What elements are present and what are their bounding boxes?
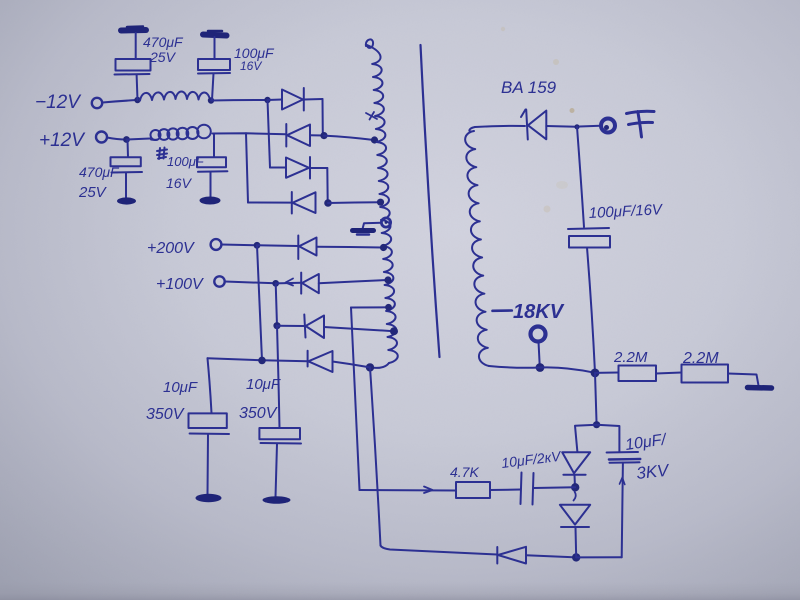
node multiplier top — [593, 421, 600, 428]
node +100V branch — [272, 280, 279, 287]
wire +100V bus down to D8 node — [276, 283, 277, 325]
wire bottom node to C9 corner — [576, 556, 622, 558]
label C1 25V — [149, 49, 177, 65]
label -12V — [35, 92, 82, 113]
svg-text:470μF: 470μF — [143, 34, 184, 50]
label C7 10uF — [246, 376, 281, 393]
wire D7 to transformer tap 4 — [319, 280, 388, 283]
node primary bottom — [366, 363, 374, 371]
node -18KV on bus — [536, 363, 545, 372]
capacitor C8 plates — [521, 473, 534, 505]
wire L2 to D2 cathode — [213, 133, 287, 134]
wire D12 to bottom node — [526, 555, 576, 557]
inductor L1 on -12V rail — [140, 92, 210, 101]
wire to D3 anode — [270, 167, 286, 169]
arrow tick on C9 stem — [620, 478, 625, 485]
wire D11 to bottom node — [575, 528, 578, 558]
capacitor C9 plates — [607, 452, 641, 463]
terminal circled dot on winding — [381, 218, 390, 227]
capacitor C7 plates — [259, 428, 301, 444]
svg-text:3KV: 3KV — [635, 461, 671, 483]
label C5 100uF/16V — [588, 201, 664, 222]
label C9 10uF/ — [624, 431, 668, 454]
label +12V — [39, 130, 86, 151]
capacitor C4 stem top — [213, 134, 215, 157]
capacitor C6 stem bottom — [207, 435, 210, 495]
capacitor C4 plates — [197, 157, 227, 172]
node on -12V rail at C1 — [134, 97, 140, 103]
wire +100V to node with arrow — [225, 279, 293, 286]
diode D8 — [304, 315, 324, 339]
wire tap 6 row to vertical A — [351, 306, 389, 308]
label R1 2.2M — [613, 349, 648, 366]
label C1 470uF — [143, 34, 184, 50]
svg-text:350V: 350V — [239, 405, 278, 422]
wire bottom bus left segment — [381, 546, 498, 555]
label +100V — [156, 276, 204, 293]
label C8 10uF/2KV — [500, 448, 563, 471]
wire D8 to transformer tap 5 — [324, 327, 394, 331]
node at F branch — [574, 124, 579, 129]
wire node to D8 — [277, 325, 304, 327]
wire +12V branch down to D4 row — [246, 133, 248, 202]
svg-text:+100V: +100V — [156, 276, 204, 293]
node D1-D2 junction — [320, 132, 327, 139]
label -18KV — [493, 301, 565, 323]
diode D1 — [282, 88, 304, 111]
inductor L2 coil on +12V rail — [151, 125, 211, 140]
node transformer tap 6 — [385, 304, 392, 311]
capacitor C2 stem bottom — [212, 74, 214, 101]
wire R3 left with arrow — [360, 487, 457, 494]
diode D7 +100V — [301, 273, 319, 294]
label C3 25V — [78, 184, 108, 201]
resistor R3 4.7K — [456, 482, 490, 498]
capacitor C2 stem top — [214, 37, 216, 59]
wire D6 to transformer tap 3 — [317, 246, 384, 249]
svg-text:16V: 16V — [166, 175, 193, 191]
node +200V branch — [254, 242, 261, 249]
capacitor C1 470uF 25V top bar — [121, 27, 146, 31]
wire bus node down to multiplier — [595, 373, 597, 425]
label C3 470uF — [79, 164, 120, 180]
svg-text:470μF: 470μF — [79, 164, 120, 180]
node transformer tap 3 — [380, 244, 387, 251]
terminal +100V — [214, 276, 224, 286]
ground blob C3 — [117, 197, 136, 204]
transformer primary winding T1 — [366, 39, 398, 363]
node +200V bus on D9 row — [258, 357, 266, 365]
svg-text:4.7K: 4.7K — [450, 464, 479, 480]
label C6 10uF — [163, 379, 198, 396]
wire node to D7 — [276, 282, 301, 285]
capacitor C7 stem bottom — [276, 444, 278, 497]
wire C9 bottom stem — [622, 463, 623, 558]
diode D10 — [562, 452, 590, 475]
svg-text:350V: 350V — [146, 406, 185, 423]
wire node to D1 anode — [268, 99, 283, 102]
svg-text:10μF: 10μF — [246, 376, 281, 393]
label C7 350V — [239, 405, 278, 422]
resistor R1 2.2M — [619, 366, 657, 382]
capacitor C6 stem top — [208, 358, 212, 413]
wire BA159 to F node — [546, 125, 576, 128]
svg-text:16V: 16V — [240, 59, 262, 73]
svg-text:18KV: 18KV — [513, 301, 565, 323]
capacitor C3 plates — [111, 157, 143, 172]
label C4 16V — [166, 175, 193, 191]
svg-text:25V: 25V — [149, 49, 177, 65]
node transformer tap 5 — [390, 327, 398, 335]
terminal +12V — [96, 132, 107, 143]
wire vertical B down to bottom bus — [370, 367, 381, 545]
capacitor C1 stem top — [135, 33, 137, 59]
wire D3 cathode to corner — [310, 167, 327, 169]
node transformer tap 4 — [384, 276, 391, 283]
wire node to D6 — [257, 244, 298, 247]
terminal +200V — [211, 239, 222, 250]
capacitor C1 stem bottom — [136, 75, 139, 101]
wire bottom bus secondary — [489, 366, 595, 373]
label C9 3KV — [635, 461, 671, 483]
squiggle below middle node — [574, 492, 576, 501]
wire node to transformer tap 2 — [328, 201, 381, 204]
wire primary bottom to node — [370, 363, 389, 368]
wire D2 anode to node — [310, 134, 324, 136]
capacitor C1 plates — [115, 59, 151, 75]
paper stains — [501, 27, 575, 213]
capacitor C4 stem bottom — [210, 172, 212, 197]
wire D10 top stem — [575, 425, 597, 452]
node bottom bus — [572, 553, 580, 561]
wire R2 to termination — [728, 374, 759, 386]
ground bar near winding — [353, 231, 374, 235]
capacitor C6 plates — [189, 413, 230, 434]
svg-text:+12V: +12V — [39, 130, 86, 151]
terminal -12V — [92, 98, 102, 108]
wire D3 corner down to D4 node — [326, 168, 328, 203]
svg-text:−12V: −12V — [35, 92, 82, 113]
wire node to coil L2 — [127, 139, 151, 140]
wire D4 row left segment — [248, 202, 292, 204]
wire +200V bus down — [257, 245, 262, 360]
diode D6 +200V — [298, 236, 316, 260]
svg-text:2.2M: 2.2M — [613, 349, 648, 366]
wire +12V terminal to node — [107, 138, 126, 140]
svg-text:25V: 25V — [78, 184, 108, 201]
node +12V at C3 — [123, 136, 130, 143]
svg-text:+200V: +200V — [147, 240, 195, 257]
wire bus node to R1 — [595, 372, 619, 374]
label C4 100uF — [167, 154, 205, 169]
diode D11 — [560, 505, 590, 527]
ground blob C7 — [263, 496, 291, 504]
wire middle node to C8 — [534, 486, 575, 489]
label C6 350V — [146, 406, 185, 423]
terminal -18KV — [531, 327, 546, 342]
scribble mark before C4 label — [157, 148, 167, 160]
wire -12V terminal to node — [103, 100, 138, 103]
wire D9 to primary bottom node — [333, 362, 371, 368]
wire D9 row left segment — [208, 358, 308, 361]
capacitor C2 100uF 16V top bar — [203, 31, 227, 36]
node D8 row — [273, 322, 280, 329]
wire D1 cathode to corner — [304, 98, 323, 101]
node transformer tap 2 — [377, 199, 384, 206]
node -12V rail at D1 branch — [264, 97, 270, 103]
wire -18KV terminal to bus — [539, 342, 540, 368]
label R3 4.7K — [450, 464, 479, 480]
wire +100V bus down to C7 — [277, 326, 280, 428]
node transformer tap 1 — [371, 136, 378, 143]
capacitor C3 stem bottom — [125, 173, 127, 199]
ground blob C4 — [200, 197, 221, 205]
wire D1 corner down to D2 node — [322, 99, 324, 135]
capacitor C3 470uF 25V stem top — [127, 140, 130, 158]
capacitor C5 stem bottom — [587, 248, 595, 373]
svg-text:10μF: 10μF — [163, 379, 198, 396]
termination bar right — [748, 385, 772, 391]
wire winding to ground — [363, 223, 382, 229]
wire C8 to R3 — [490, 489, 521, 492]
wire secondary top to diode BA159 — [475, 126, 525, 127]
wire node to transformer tap 1 — [324, 136, 374, 140]
wire +200V to node — [222, 244, 257, 247]
resistor R2 2.2M — [682, 365, 729, 383]
transformer core line — [421, 45, 440, 357]
wire vertical A down to 4.7K row — [351, 308, 360, 491]
wire -12V branch down to D3 row — [268, 100, 271, 168]
svg-text:BA 159: BA 159 — [501, 78, 557, 97]
label F — [627, 111, 655, 137]
diode D5 BA159 — [521, 110, 546, 140]
wire F node down to C5 — [577, 127, 584, 227]
terminal F — [601, 119, 615, 133]
ground blob C6 — [196, 494, 222, 502]
diode D4 — [292, 192, 316, 214]
diode D12 — [497, 547, 526, 564]
wire D10 to middle node — [574, 475, 577, 487]
node multiplier middle — [571, 483, 579, 491]
capacitor C5 plates — [568, 228, 610, 248]
diode D9 — [308, 351, 333, 372]
transformer secondary winding T1s — [465, 127, 489, 366]
wire node to F terminal — [580, 125, 601, 128]
wire -12V rail to D1 — [211, 99, 268, 102]
label C2 16V — [240, 59, 262, 73]
label +200V — [147, 240, 195, 257]
capacitor C2 plates — [198, 59, 230, 74]
node D3-D4 junction — [324, 199, 332, 207]
wire C9 top stem — [597, 425, 620, 452]
label R2 2.2M — [682, 350, 719, 367]
node bus at C5/R1 — [591, 369, 600, 378]
label BA159 — [501, 78, 557, 97]
node L1 right / C2 — [208, 97, 214, 103]
diode D3 — [286, 157, 310, 179]
label C2 100uF — [234, 45, 275, 61]
wire R1 to R2 — [656, 373, 682, 374]
diode D2 — [286, 124, 310, 147]
knot mark on primary winding — [366, 112, 377, 120]
